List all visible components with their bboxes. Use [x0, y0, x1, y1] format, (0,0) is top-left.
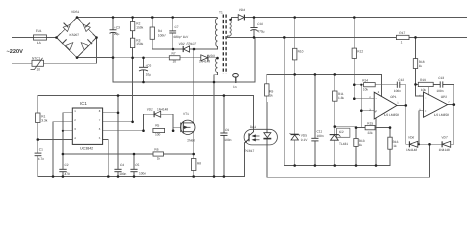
svg-text:PC817: PC817 [245, 149, 255, 153]
diode VD2 [183, 46, 189, 52]
svg-text:DA1: DA1 [250, 125, 256, 129]
resistor R10 [293, 48, 297, 60]
wire OP2 pin5 row riser [419, 111, 424, 145]
svg-text:IC2: IC2 [339, 130, 344, 134]
svg-text:10: 10 [37, 67, 41, 71]
wire VD1 R5 loop right [172, 114, 174, 131]
svg-text:22µ: 22µ [114, 32, 120, 36]
wire pin8 stub [103, 112, 118, 114]
svg-text:VDS1: VDS1 [71, 10, 80, 14]
wire gate stub [173, 126, 181, 128]
wire R12 column [353, 18, 355, 49]
wire R13 column [355, 128, 357, 139]
svg-text:−: − [375, 96, 377, 100]
diode VD1 [154, 111, 161, 117]
svg-text:150k: 150k [136, 25, 143, 29]
svg-text:1n: 1n [233, 85, 237, 89]
svg-text:100n: 100n [317, 134, 324, 138]
resistor R3 [130, 38, 134, 47]
wire pin7 stub [103, 121, 133, 123]
wire DA1 LED cathode to outer return [267, 139, 430, 177]
svg-text:VD7: VD7 [441, 135, 447, 139]
svg-text:150k: 150k [136, 42, 143, 46]
svg-text:1/2 LM358: 1/2 LM358 [384, 113, 399, 117]
svg-text:R5: R5 [155, 124, 159, 128]
wire C1 column to bottom bus [37, 140, 39, 154]
svg-text:9.1V: 9.1V [301, 138, 308, 142]
svg-text:10µ: 10µ [146, 72, 152, 76]
svg-text:10k: 10k [421, 88, 427, 92]
capacitor C13 [440, 81, 443, 87]
svg-text:R10: R10 [298, 50, 304, 54]
svg-text:−: − [425, 96, 427, 100]
wire pin3 column x63 [63, 130, 72, 132]
wire drain column [193, 49, 195, 123]
wire C8 stem [235, 77, 237, 82]
svg-text:1N4148: 1N4148 [199, 59, 210, 63]
svg-text:C9: C9 [225, 128, 229, 132]
svg-text:C1: C1 [39, 147, 43, 151]
svg-text:100n: 100n [139, 172, 146, 176]
svg-text:FR107: FR107 [187, 42, 197, 46]
svg-text:100n: 100n [436, 89, 443, 93]
capacitor C3 [110, 30, 117, 34]
wire R14 C12 feedback row [354, 84, 363, 86]
svg-text:1N4148: 1N4148 [439, 148, 450, 152]
IC1 box UC3842 [72, 108, 102, 144]
svg-text:R6: R6 [154, 148, 158, 152]
svg-text:~220V: ~220V [7, 49, 24, 55]
capacitor C12 [397, 82, 400, 88]
svg-text:+C3: +C3 [114, 25, 120, 29]
wire C11 column [314, 74, 316, 138]
wire OP2 vplus riser [428, 84, 430, 94]
svg-text:1k: 1k [359, 143, 363, 147]
svg-text:VD1: VD1 [147, 107, 153, 111]
svg-text:1k: 1k [269, 93, 273, 97]
svg-text:R4: R4 [158, 29, 162, 33]
wire aux winding bottom column x214 [214, 73, 218, 177]
wire DA1 emitter to primary bus [244, 143, 246, 177]
svg-text:OP1: OP1 [390, 95, 397, 99]
svg-text:VD2: VD2 [179, 42, 185, 46]
svg-text:680p* 1kV: 680p* 1kV [174, 35, 190, 39]
bridge diode upper-left [63, 23, 70, 32]
svg-text:R19: R19 [420, 78, 426, 82]
svg-text:C12: C12 [398, 78, 404, 82]
svg-text:C5: C5 [135, 163, 139, 167]
svg-text:C4: C4 [120, 163, 124, 167]
wire C7 snubber column [172, 18, 174, 31]
wire secondary top jog [230, 18, 232, 21]
svg-text:100n: 100n [224, 138, 231, 142]
opamp OP1 [374, 92, 397, 119]
svg-text:470: 470 [65, 172, 71, 176]
svg-text:10k: 10k [363, 88, 369, 92]
svg-text:1: 1 [401, 41, 403, 45]
thermistor NTC1 [31, 58, 44, 70]
wire bridge negative row y58 [77, 57, 169, 59]
diode VD4 [238, 15, 244, 21]
svg-text:TL431: TL431 [339, 142, 348, 146]
wire OP1 pin4 riser [375, 118, 377, 166]
wire R2R3 column [132, 18, 134, 22]
svg-text:R8: R8 [197, 161, 201, 165]
wire C3 column [112, 18, 114, 30]
transformer T1 core [223, 15, 226, 75]
resistor R9 [265, 84, 269, 96]
wire pin5 column [103, 140, 109, 177]
svg-text:T1: T1 [219, 10, 223, 14]
resistor R2 [130, 22, 134, 31]
svg-text:C7: C7 [175, 25, 179, 29]
wire ground riser x284 [283, 37, 285, 165]
wire R11 TL431 column [334, 74, 336, 91]
svg-text:4.7n: 4.7n [38, 157, 44, 161]
svg-text:100: 100 [155, 133, 161, 137]
opamp OP2 [424, 92, 448, 117]
svg-text:2N60: 2N60 [187, 139, 195, 143]
wire primary bottom bus y176.5 [38, 176, 245, 178]
wire VD1 row [144, 113, 155, 115]
wire top bus secondary to VD4 [232, 17, 239, 19]
resistor R4 [150, 27, 154, 39]
svg-text:3.3k: 3.3k [41, 119, 47, 123]
svg-text:KS207: KS207 [70, 33, 80, 37]
resistor R5 [153, 128, 165, 132]
svg-text:VD3: VD3 [209, 54, 215, 58]
wire pin6 row to gate network [103, 130, 144, 132]
transistor VT1 mosfet [181, 120, 195, 134]
shunt regulator IC2 TL431 [330, 128, 350, 140]
wire VD1 R5 loop left [143, 114, 145, 131]
wire pin8 C4 column x118 [117, 96, 119, 170]
wire pin3 node column [360, 85, 362, 128]
zener VD5 [290, 133, 300, 140]
capacitor C10 [250, 28, 257, 31]
svg-text:C2: C2 [65, 163, 69, 167]
diode VD7 [442, 141, 451, 147]
resistor R18 [413, 59, 417, 69]
wire R16 column [389, 128, 391, 138]
svg-text:1.3k: 1.3k [338, 96, 344, 100]
svg-text:C11: C11 [317, 130, 323, 134]
wire pin1 row from R1 top [63, 112, 72, 114]
resistor R11 [333, 91, 337, 101]
wire bus B vref row y93.6 [38, 96, 254, 130]
wire C9 column [223, 96, 225, 133]
capacitor C2 [59, 169, 66, 171]
wire VD2 to primary bottom [190, 47, 218, 50]
wire OP1 output [397, 104, 406, 106]
wire secondary supply bus y74.4 [267, 73, 382, 75]
wire AC live input [12, 37, 56, 39]
wire top HV bus [77, 17, 217, 19]
wire DA1 collector riser [253, 96, 255, 132]
wire secondary bottom to 0V bus [228, 36, 397, 37]
svg-text:10: 10 [173, 59, 177, 63]
wire OP1 vplus riser pin8 [380, 74, 382, 96]
svg-text:VD5: VD5 [301, 133, 307, 137]
bridge diode lower-left [62, 39, 73, 49]
optocoupler DA1 LED [263, 133, 271, 139]
wire inner ground bus y165.5 [284, 165, 390, 167]
resistor R14 [364, 83, 376, 87]
svg-text:C10: C10 [257, 22, 263, 26]
wire VD4 to output plus [244, 17, 466, 19]
svg-text:+: + [375, 109, 377, 113]
svg-text:1N4148: 1N4148 [157, 107, 168, 111]
resistor R6 [153, 152, 164, 156]
svg-text:VT1: VT1 [183, 112, 189, 116]
resistor R19 [418, 82, 433, 86]
wire pin3 row OP1 [361, 110, 374, 112]
svg-text:R7: R7 [172, 52, 176, 56]
svg-text:470µ: 470µ [257, 29, 264, 33]
wire OP2 feedback column [451, 84, 454, 144]
capacitor C11 [311, 138, 318, 141]
resistor R7 [169, 56, 180, 60]
svg-text:100n: 100n [394, 89, 401, 93]
svg-text:100n: 100n [119, 172, 126, 176]
wire pin4 row [38, 139, 73, 141]
wire R4 snubber column [151, 18, 153, 28]
bridge diode upper-right [83, 23, 90, 32]
svg-text:1/2 LM358: 1/2 LM358 [434, 113, 449, 117]
wire R1 column [37, 96, 39, 114]
resistor R15 [365, 125, 375, 129]
svg-text:1k: 1k [157, 156, 161, 160]
wire source column [193, 132, 195, 159]
capacitor C6 [139, 67, 148, 71]
transformer T1 secondary winding [230, 20, 232, 36]
wire C10 column [253, 18, 255, 28]
resistor R1 [36, 113, 40, 123]
svg-text:R15: R15 [367, 122, 373, 126]
svg-text:IC1: IC1 [80, 101, 87, 106]
capacitor C7 [169, 31, 176, 33]
diode VD3 [201, 55, 208, 61]
wire output node column x405.8 [406, 85, 410, 145]
wire R8 to bus [193, 171, 195, 177]
resistor R17 [396, 35, 409, 39]
wire R18 column [415, 37, 417, 58]
capacitor C8 [233, 74, 239, 78]
wire ref row y127.6 [335, 126, 365, 129]
optocoupler DA1 body [244, 129, 277, 145]
wire AC neutral input [12, 38, 96, 64]
resistor R13 [354, 139, 358, 147]
transformer T1 aux winding [216, 58, 218, 72]
wire VD6 VD7 row [418, 143, 442, 145]
resistor R8 [192, 159, 196, 171]
wire C5 column [133, 154, 135, 169]
wire 0V bus after R17 [409, 36, 467, 38]
resistor R16 [388, 137, 392, 149]
optocoupler DA1 light arrows [253, 135, 260, 141]
svg-text:VD4: VD4 [239, 8, 245, 12]
wire pin2 row OP1 [354, 98, 374, 100]
svg-text:OP2: OP2 [441, 95, 448, 99]
optocoupler DA1 phototransistor [245, 132, 254, 143]
diode VD6 [409, 141, 417, 147]
wire sense row y154 [63, 153, 153, 155]
capacitor C1 [35, 153, 42, 156]
svg-text:R17: R17 [399, 31, 405, 35]
wire bus A primary ground y82 [113, 37, 255, 82]
svg-text:UC3842: UC3842 [80, 146, 93, 150]
svg-text:1N4148: 1N4148 [406, 148, 417, 152]
resistor R12 [352, 48, 356, 58]
svg-text:100k*: 100k* [158, 33, 167, 37]
wire R10 VD5 column [294, 18, 296, 49]
svg-text:FU1: FU1 [36, 29, 42, 33]
wire OP2 output [448, 104, 454, 106]
wire C6 column [143, 58, 145, 67]
svg-text:NTC1: NTC1 [32, 57, 41, 61]
svg-text:1k: 1k [419, 64, 423, 68]
svg-text:R12: R12 [357, 50, 363, 54]
svg-text:VD6: VD6 [408, 135, 414, 139]
svg-text:R14: R14 [362, 78, 368, 82]
svg-text:+C6: +C6 [145, 64, 151, 68]
wire pin2 column x53 [53, 122, 72, 177]
bridge VDS1 diamond [57, 18, 97, 58]
capacitor C5 [130, 169, 137, 171]
svg-text:+: + [425, 109, 427, 113]
wire R19 C13 row [416, 83, 419, 85]
bridge diode lower-right [81, 39, 92, 49]
capacitor C9 [220, 133, 227, 135]
wire R9 column DA1 LED anode [266, 74, 268, 83]
fuse FU1 [34, 35, 47, 40]
transformer T1 primary winding [215, 18, 217, 47]
svg-text:22k: 22k [368, 131, 374, 135]
capacitor C4 [114, 169, 121, 171]
svg-text:C13: C13 [438, 76, 444, 80]
svg-text:1k: 1k [393, 144, 397, 148]
